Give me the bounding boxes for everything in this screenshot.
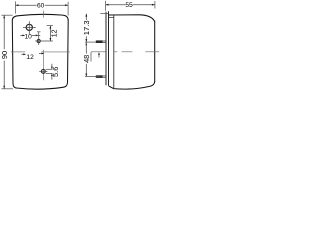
- dim 5.6 tick bottom: [46, 72, 53, 74]
- dim 48 line lower: [85, 64, 87, 77]
- hole centerline horizontal shared with dim 12 tick: [35, 40, 53, 42]
- dim 60 extension line right: [67, 2, 69, 16]
- dim 48 arrow up: [85, 42, 87, 45]
- small hole: [37, 39, 40, 42]
- dim 60 arrow right: [65, 4, 68, 6]
- extension stub at x 91: [90, 52, 92, 62]
- big hole ring: [26, 24, 32, 30]
- side view bottom edge: [109, 82, 155, 90]
- dim 5.6 line lower: [51, 74, 53, 80]
- dim 5.6 arrow up: [51, 73, 53, 76]
- dim 10 line right: [32, 34, 37, 36]
- dim 12 tick top: [47, 25, 53, 27]
- dim 12 horizontal arrow right: [42, 53, 45, 55]
- side view back plate top tick: [100, 13, 108, 15]
- big hole crosshair horizontal: [23, 26, 36, 28]
- front view horizontal centerline: [11, 51, 25, 53]
- bottom hole: [41, 70, 45, 74]
- dim 60 arrow left: [15, 4, 18, 6]
- svg-text:17.3: 17.3: [82, 20, 91, 35]
- dim 5.6 arrow down: [51, 67, 53, 70]
- dim 5.6 line upper: [51, 64, 53, 69]
- centerline arrow up: [98, 52, 100, 55]
- dim 12 horizontal line right: [39, 53, 42, 55]
- side view lens face: [154, 21, 156, 82]
- big hole crosshair vertical: [28, 21, 30, 34]
- front view vertical centerline top segment: [43, 11, 45, 18]
- dim 90 line: [3, 15, 5, 49]
- dim 48 line upper: [85, 42, 87, 53]
- dim 48 arrow down: [85, 74, 87, 77]
- dim 17.3 line lower: [85, 36, 87, 42]
- dim 17.3 arrow up: [85, 14, 87, 17]
- dim 12 arrow down: [50, 38, 52, 41]
- front view outline: [12, 14, 68, 89]
- dim 90 tick top: [1, 14, 12, 16]
- svg-text:55: 55: [125, 2, 133, 9]
- dim 55 line: [106, 4, 126, 6]
- svg-text:90: 90: [0, 51, 9, 59]
- svg-text:12: 12: [52, 29, 59, 37]
- dim 5.6 tick top: [46, 68, 53, 70]
- small hole tick top: [37, 31, 41, 33]
- upper stud: [96, 40, 103, 43]
- dim 55 extension left: [105, 1, 107, 11]
- side view inner seam: [113, 15, 115, 88]
- svg-text:12: 12: [26, 54, 34, 61]
- lower stud: [96, 75, 103, 78]
- dim 12 horizontal line left: [21, 53, 23, 55]
- side view outline top edge: [109, 15, 155, 22]
- dim 55 arrow left: [106, 4, 109, 6]
- dim 55 arrow right: [152, 4, 155, 6]
- dim 10 line left: [20, 34, 23, 36]
- dim 90 arrow down: [3, 86, 5, 89]
- dim 10 arrow left: [22, 35, 25, 37]
- dim 55 extension right: [154, 1, 156, 9]
- dim 90 arrow up: [3, 15, 5, 18]
- side view top notch line: [109, 16, 114, 18]
- svg-text:48: 48: [82, 55, 91, 63]
- side view back plate inner: [108, 11, 110, 86]
- svg-text:5.6: 5.6: [51, 67, 60, 77]
- side view back plate outer: [105, 12, 107, 86]
- dim 90 tick bottom: [1, 88, 13, 90]
- dim 12 horizontal arrow left: [23, 53, 26, 55]
- dim 17.3 line upper: [85, 14, 87, 20]
- bottom hole crosshair horizontal: [39, 70, 47, 72]
- front view vertical centerline lower segment: [43, 50, 45, 81]
- svg-text:10: 10: [25, 34, 33, 41]
- stud2 tick: [85, 76, 100, 78]
- dim 12 arrow up: [50, 26, 52, 29]
- dim 17.3 arrow down: [85, 39, 87, 42]
- stud1 tick: [85, 41, 96, 43]
- dim 60 line: [16, 4, 37, 6]
- dim 10 arrow right: [36, 35, 39, 37]
- small hole centerline vertical: [38, 32, 40, 45]
- svg-text:60: 60: [37, 3, 45, 10]
- dim 60 extension line left: [14, 1, 16, 13]
- side view horizontal centerline: [91, 51, 106, 53]
- dim 12 vertical line: [49, 26, 51, 41]
